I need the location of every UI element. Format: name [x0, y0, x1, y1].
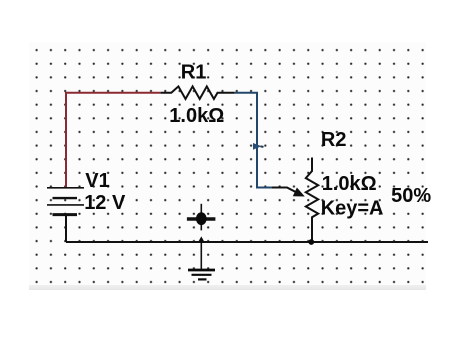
svg-text:50%: 50% [391, 185, 431, 207]
ground symbol [188, 242, 215, 279]
svg-text:V1: V1 [85, 170, 109, 192]
svg-text:Key=A: Key=A [321, 198, 384, 220]
svg-text:R1: R1 [181, 62, 207, 84]
label R1 [181, 62, 207, 84]
wire: bottom ground rail [66, 241, 428, 243]
junction: cross-dot connector above ground [187, 204, 216, 231]
node: arrowhead joining ground stem to rail [198, 236, 204, 241]
resistor R1 [161, 86, 235, 99]
label V1 [85, 170, 109, 192]
potentiometer R2 [306, 158, 318, 243]
svg-text:1.0kΩ: 1.0kΩ [169, 105, 224, 127]
junction dot: R2 bottom pin on rail [308, 239, 314, 245]
label R2 [321, 129, 347, 151]
wire: wiper lead into R2 with arrowhead [272, 188, 305, 197]
value label 50% [391, 185, 431, 207]
svg-text:1.0kΩ: 1.0kΩ [322, 173, 377, 195]
value label 1.0kΩ for R2 [322, 173, 377, 195]
value label Key=A [321, 198, 384, 220]
wire: blue net from R1 right pin down to potentiometer wiper [235, 93, 273, 188]
value label 12 V [84, 192, 126, 214]
node marker: blue arrow on vertical blue wire [253, 143, 264, 150]
svg-text:12 V: 12 V [84, 192, 126, 214]
wire: V1 negative lead down to bottom rail [65, 215, 67, 242]
battery V1 plates [47, 188, 84, 215]
value label 1.0kΩ for R1 [169, 105, 224, 127]
wire: red net from V1+ up and right to R1 left pin [66, 93, 161, 188]
svg-text:R2: R2 [321, 129, 347, 151]
